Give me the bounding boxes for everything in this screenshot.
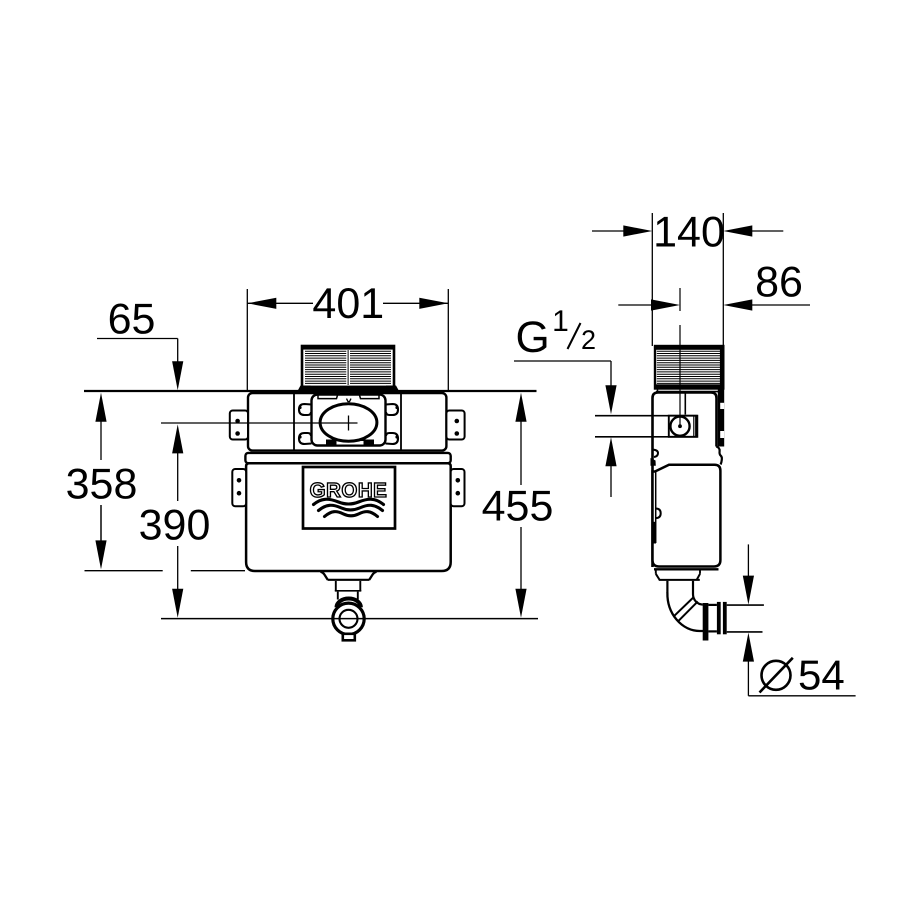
- svg-text:1: 1: [552, 305, 569, 338]
- wall bracket right: [451, 469, 465, 506]
- svg-text:390: 390: [139, 502, 211, 550]
- wall bracket left: [232, 469, 246, 506]
- dimension 86: [618, 259, 810, 312]
- svg-text:455: 455: [482, 483, 554, 531]
- collar band front: [245, 453, 450, 463]
- mounting tab right: [446, 411, 464, 440]
- dimension 401: [247, 280, 448, 392]
- svg-text:2: 2: [581, 325, 596, 355]
- inlet centerline front: [161, 422, 358, 424]
- threaded adjustment block side: [655, 346, 723, 392]
- mounting tab left: [230, 411, 248, 440]
- cistern body side: [652, 465, 721, 570]
- dimension 65: [97, 296, 183, 391]
- label diameter 54 outlet pipe: [743, 544, 856, 698]
- flush opening ellipse: [320, 404, 377, 442]
- svg-text:401: 401: [312, 280, 384, 328]
- neck profile side: [651, 447, 722, 466]
- svg-text:G: G: [516, 313, 550, 362]
- reference dots: [298, 406, 398, 439]
- floor reference line: [161, 618, 538, 620]
- outlet pipe side: [727, 605, 764, 632]
- cistern body front: [246, 463, 451, 571]
- spring clips right: [386, 404, 399, 444]
- pipe coupling rings: [703, 602, 727, 641]
- GROHE logo panel: [303, 467, 395, 529]
- threaded adjustment block front: [298, 346, 400, 391]
- valve cassette front: [312, 395, 386, 446]
- label G 1/2 inlet thread: [514, 305, 617, 497]
- frame top section front: [248, 393, 446, 451]
- dimension 455: [482, 393, 554, 618]
- svg-text:86: 86: [755, 259, 803, 307]
- svg-text:54: 54: [798, 652, 845, 699]
- inlet valve housing side: [595, 416, 697, 437]
- valve section side: [653, 393, 717, 568]
- dimension 140: [592, 209, 783, 347]
- wall rail side: [718, 388, 724, 447]
- flush bend side: [656, 570, 704, 631]
- centerline inlet side: [679, 325, 681, 426]
- svg-text:140: 140: [653, 209, 725, 257]
- spring clips left: [299, 404, 312, 444]
- dimension 390: [139, 424, 211, 617]
- flush outlet front: [321, 572, 377, 641]
- wall reference line: [84, 390, 537, 392]
- svg-text:65: 65: [108, 296, 156, 344]
- dimension 358: [66, 393, 245, 571]
- svg-text:358: 358: [66, 461, 138, 509]
